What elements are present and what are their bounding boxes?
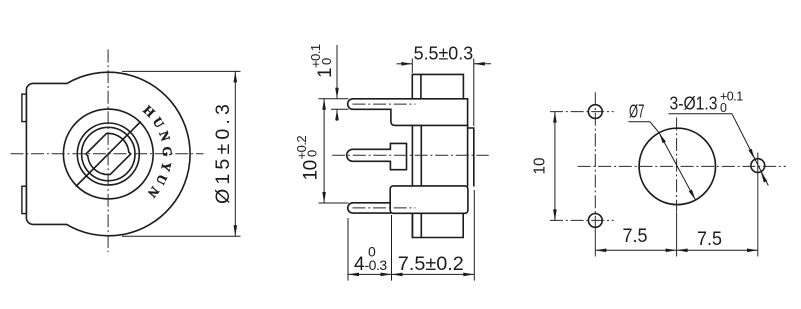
bottom block [412,213,463,237]
centerlines of left view [11,50,204,253]
svg-text:7.5±0.2: 7.5±0.2 [398,254,464,275]
dim line left part [397,63,413,65]
ext line pins left [347,218,349,281]
svg-text:4: 4 [354,254,365,275]
dimension 1 +0.1/0 [319,45,349,121]
svg-text:G: G [160,146,175,157]
arrow up-pointing [322,99,326,110]
big circle Ø7 [639,128,715,204]
main horizontal centerline [578,165,786,167]
svg-text:7.5: 7.5 [697,229,722,250]
arrow mid left-pointing [392,273,403,277]
svg-text:N: N [156,129,173,143]
leader diagonal through hole [732,114,768,186]
right hole vertical centerline [757,153,759,257]
dim line vertical [554,112,556,221]
cap inner line [420,74,422,98]
mounting tab upper-left [22,94,27,122]
middle pin [347,149,391,161]
svg-text:3-Ø1.3: 3-Ø1.3 [670,93,718,113]
hole right [751,159,765,173]
hole top-left [588,105,602,119]
arrow upper-left-pointing [659,133,666,144]
dimension 10 +0.2/0 [319,99,349,203]
middle pin boss [390,143,406,169]
bottom pin [348,203,390,213]
top cap outline [412,74,463,98]
rotor outer circle [63,109,153,199]
arrow left end [348,273,359,277]
arrow up [234,71,238,82]
svg-text:Ø15±0.3: Ø15±0.3 [213,100,234,204]
svg-text:H: H [140,102,158,120]
dimension line [234,71,236,236]
svg-text:0: 0 [304,150,319,157]
ring circle outer [77,123,139,185]
ext line pin1 bottom [331,108,349,110]
svg-text:10: 10 [300,160,321,180]
arrow right-pointing [401,62,412,66]
svg-text:1: 1 [315,68,336,78]
svg-text:-0.3: -0.3 [365,257,388,273]
arrow right end [463,273,474,277]
body top edge with pin1 and step [348,99,468,126]
middle view centerlines [332,104,489,208]
leader below [336,109,338,121]
arrow mid right-pointing [666,249,677,253]
ext line pin3 top [319,202,349,204]
svg-text:U: U [153,172,171,188]
dimensions 4-0.3 and 7.5±0.2 [348,190,474,281]
dim text 10+0.2/0 [294,136,322,181]
label underline [628,121,650,123]
dimension Ø15±0.3 [122,71,241,236]
dimension 5.5±0.3 [397,59,492,127]
svg-text:N: N [144,184,162,201]
arrow mid right-pointing [381,273,392,277]
dimension 7.5 / 7.5 bottom [595,249,758,251]
svg-text:7.5: 7.5 [623,226,648,247]
arrow up-pointing [335,109,339,120]
dim line [323,99,325,203]
arrow down-pointing [335,88,339,99]
arrow down [234,225,238,236]
extension line top [122,70,241,72]
ext line left [411,59,413,74]
ring circle inner [82,127,135,180]
leader above [336,45,338,99]
dim line bottom [595,249,758,251]
ext line body right [473,190,475,281]
body right edge upper [467,99,469,186]
arrow right end [747,249,758,253]
pin1 centerline [353,103,416,105]
svg-text:10: 10 [532,157,549,174]
screw shaft line B [420,125,422,237]
svg-text:0: 0 [720,101,727,115]
body outline (circle with left flat and corner flats) [26,72,190,236]
ext line right [473,59,475,127]
diameter line [659,133,695,200]
mounting tab lower-left [22,186,27,213]
arrow down-pointing [553,209,557,220]
left holes vertical centerline [594,92,596,225]
big circle vertical centerline [676,117,678,213]
top-left hole horizontal centerline [550,111,614,113]
mounting band flange [390,186,468,213]
main axis centerline [332,154,489,156]
HUNGYUN curved brand text [140,102,175,201]
hole bottom-left [588,214,602,228]
arrow up-pointing [553,112,557,123]
arrow down-pointing [322,192,326,203]
svg-text:Ø7: Ø7 [629,102,645,122]
rotor recess slot outline [86,133,131,174]
ext line body left [391,215,393,281]
arrow mid left-pointing [677,249,688,253]
svg-text:Y: Y [158,161,175,174]
screw shaft line A [411,125,413,237]
arrow toward hole upper [748,149,754,160]
arrow toward hole lower [761,172,767,183]
screwdriver slot line [76,122,140,186]
dim line bottom [348,273,474,275]
dim text 1+0.1/0 [308,44,336,78]
arrow left-pointing [474,62,485,66]
arrow lower-right-pointing [689,190,696,201]
svg-text:0: 0 [319,58,334,65]
leader to rim [650,122,659,133]
ext line pin1 top [319,98,349,100]
right step [468,128,474,186]
dim line right part [474,63,491,65]
extension line bottom [122,235,241,237]
pin3 centerline [353,207,416,209]
arrow left end [595,249,606,253]
svg-text:U: U [150,115,168,131]
label underline shelf [669,113,733,115]
bottom-left hole horizontal centerline [550,219,614,221]
svg-text:5.5±0.3: 5.5±0.3 [414,44,474,64]
horizontal centerline [11,153,204,155]
vertical centerline [107,50,109,253]
dimension 10 (right view) [554,112,556,221]
